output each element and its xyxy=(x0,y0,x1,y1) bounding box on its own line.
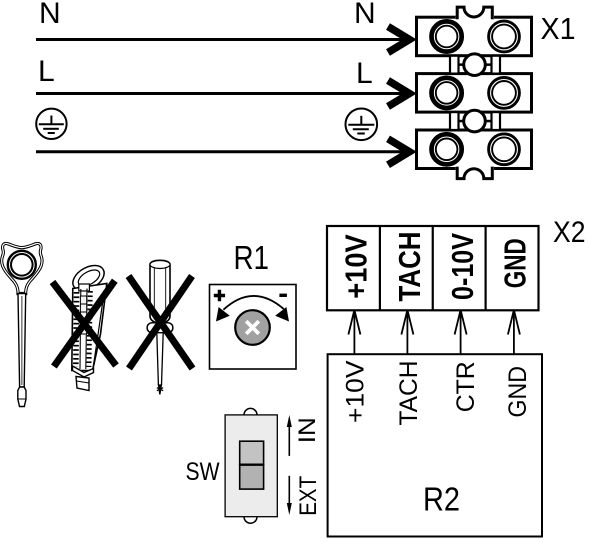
svg-text:0-10V: 0-10V xyxy=(445,233,480,300)
svg-text:X2: X2 xyxy=(553,216,586,249)
svg-text:+10V: +10V xyxy=(339,234,374,299)
svg-text:CTR: CTR xyxy=(452,361,480,412)
svg-text:R1: R1 xyxy=(234,239,270,276)
svg-text:X1: X1 xyxy=(541,11,576,46)
svg-text:EXT: EXT xyxy=(295,476,322,516)
svg-text:L: L xyxy=(38,55,55,88)
svg-text:GND: GND xyxy=(504,366,532,418)
svg-text:TACH: TACH xyxy=(392,232,427,302)
svg-text:R2: R2 xyxy=(423,481,460,518)
svg-text:+10V: +10V xyxy=(342,360,370,423)
svg-text:SW: SW xyxy=(186,458,220,486)
svg-text:GND: GND xyxy=(498,238,533,288)
svg-text:TACH: TACH xyxy=(395,361,423,426)
svg-text:IN: IN xyxy=(294,417,321,443)
svg-text:L: L xyxy=(356,57,373,90)
svg-text:N: N xyxy=(354,0,376,30)
svg-text:N: N xyxy=(39,0,61,30)
